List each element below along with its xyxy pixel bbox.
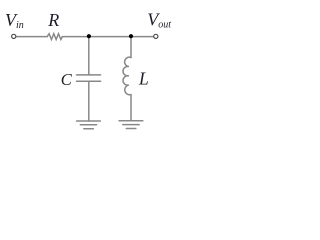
capacitor C top plate bbox=[77, 74, 101, 76]
wire Vin terminal to resistor bbox=[16, 36, 47, 38]
ground (capacitor) bbox=[77, 121, 101, 129]
node (junction dot, inductor branch) bbox=[129, 34, 133, 38]
wire inductor to ground bbox=[130, 95, 132, 121]
terminal Vout bbox=[154, 34, 158, 38]
ground (inductor) bbox=[119, 121, 143, 129]
resistor R bbox=[47, 34, 62, 40]
wire node C down to capacitor bbox=[88, 37, 90, 75]
node (junction dot, capacitor branch) bbox=[87, 34, 91, 38]
capacitor C bottom plate bbox=[77, 80, 101, 82]
svg-text:Vout: Vout bbox=[147, 10, 171, 31]
svg-text:Vin: Vin bbox=[5, 10, 24, 31]
inductor L coil bbox=[123, 57, 131, 95]
wire resistor to Vout terminal bbox=[62, 36, 153, 38]
wire capacitor to ground bbox=[88, 81, 90, 121]
svg-text:R: R bbox=[47, 10, 59, 30]
terminal Vin bbox=[12, 34, 16, 38]
svg-text:C: C bbox=[61, 70, 73, 89]
wire node L down to inductor bbox=[130, 37, 132, 58]
svg-text:L: L bbox=[138, 69, 149, 89]
